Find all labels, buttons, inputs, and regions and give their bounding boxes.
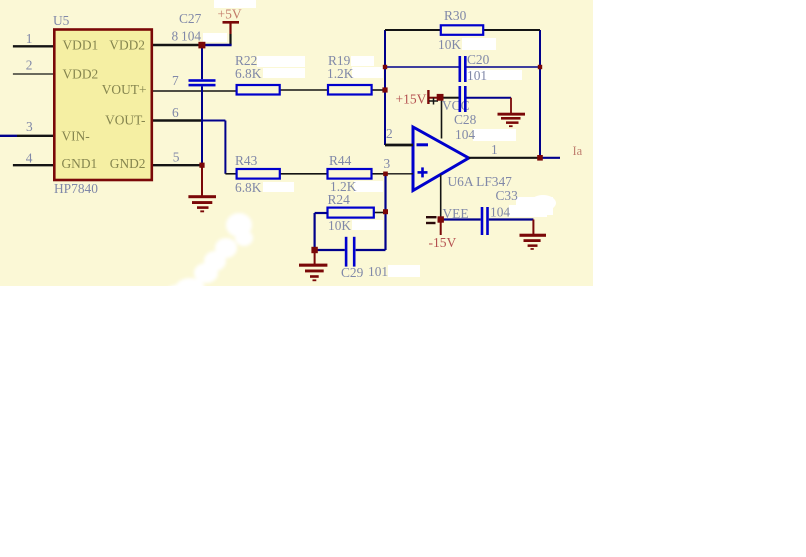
svg-text:C33: C33 — [496, 188, 519, 203]
svg-text:10K: 10K — [438, 37, 461, 52]
svg-text:101: 101 — [368, 264, 388, 279]
svg-text:R44: R44 — [329, 153, 352, 168]
svg-text:3: 3 — [384, 156, 391, 171]
svg-text:C28: C28 — [454, 112, 477, 127]
svg-text:VEE: VEE — [443, 206, 469, 221]
svg-text:3: 3 — [26, 119, 33, 134]
svg-text:2: 2 — [26, 58, 33, 73]
svg-text:U6A LF347: U6A LF347 — [448, 174, 513, 189]
svg-text:10K: 10K — [328, 218, 351, 233]
svg-text:1: 1 — [26, 31, 33, 46]
svg-text:+5V: +5V — [218, 7, 242, 22]
svg-text:VIN-: VIN- — [62, 129, 90, 144]
svg-text:104: 104 — [490, 205, 510, 220]
svg-text:U5: U5 — [53, 13, 70, 28]
svg-text:VOUT-: VOUT- — [105, 113, 145, 128]
svg-text:R43: R43 — [235, 153, 258, 168]
svg-text:R30: R30 — [444, 8, 467, 23]
svg-text:101: 101 — [467, 68, 487, 83]
svg-text:4: 4 — [26, 151, 33, 166]
svg-text:2: 2 — [386, 126, 393, 141]
svg-text:VDD2: VDD2 — [109, 38, 145, 53]
svg-text:104: 104 — [181, 29, 201, 44]
svg-text:Ia: Ia — [573, 144, 583, 158]
svg-text:C20: C20 — [467, 52, 490, 67]
svg-text:R24: R24 — [328, 192, 351, 207]
svg-text:5: 5 — [173, 149, 180, 164]
svg-text:1.2K: 1.2K — [327, 66, 354, 81]
svg-text:VOUT+: VOUT+ — [102, 82, 147, 97]
svg-text:1: 1 — [491, 142, 498, 157]
svg-text:6: 6 — [172, 105, 179, 120]
svg-text:C29: C29 — [341, 265, 364, 280]
svg-text:6.8K: 6.8K — [235, 66, 262, 81]
svg-text:-15V: -15V — [429, 235, 457, 250]
svg-text:6.8K: 6.8K — [235, 180, 262, 195]
svg-text:GND1: GND1 — [62, 156, 98, 171]
svg-text:HP7840: HP7840 — [54, 181, 98, 196]
svg-text:7: 7 — [172, 73, 179, 88]
svg-text:8: 8 — [172, 29, 179, 44]
svg-text:C27: C27 — [179, 11, 202, 26]
svg-text:VDD2: VDD2 — [63, 67, 99, 82]
svg-text:104: 104 — [455, 127, 475, 142]
svg-text:+15V: +15V — [396, 92, 427, 107]
svg-text:GND2: GND2 — [110, 156, 146, 171]
svg-text:VDD1: VDD1 — [63, 38, 99, 53]
